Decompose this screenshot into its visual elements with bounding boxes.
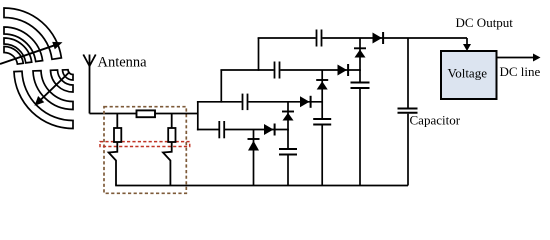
voltage regulator box — [441, 51, 497, 99]
bent stub wire left — [109, 142, 118, 186]
DC line arrow — [497, 54, 541, 62]
matching network inner red dashed box — [100, 142, 190, 147]
resistor R3 (shunt right) — [168, 114, 175, 143]
transmit icon arrow — [0, 42, 63, 64]
capacitor C7 (stage3 shunt at node B3) — [351, 70, 370, 186]
svg-text:DC Output: DC Output — [456, 15, 514, 30]
svg-text:DC line: DC line — [500, 64, 541, 79]
svg-text:Antenna: Antenna — [98, 55, 148, 71]
wire: stage3 line right — [280, 69, 361, 71]
diode D8 (stage4 series) — [373, 32, 384, 44]
wire: input vertical stage1-stage2 — [197, 102, 199, 131]
capacitor C1 (stage1 series) — [219, 121, 224, 138]
wire: stage4 line left — [258, 37, 316, 39]
wire: stage1 line right — [225, 129, 289, 131]
receive antenna radiation icon (arcs with arrow) — [14, 70, 73, 129]
capacitor C2 (stage2 series) — [243, 94, 248, 111]
svg-text:Voltage: Voltage — [448, 66, 488, 81]
wire: R1 to multiplier input — [155, 113, 198, 115]
diode D5 (node B2 up to stage3) — [316, 70, 328, 103]
diode D3 (node B1 up to stage2) — [282, 102, 294, 131]
diode D2 (stage1 series) — [264, 124, 275, 136]
arrow into voltage box — [463, 38, 471, 51]
capacitor C3 (stage3 series) — [275, 62, 280, 79]
capacitor C6 (stage2 shunt at node B2) — [313, 102, 331, 186]
wire: antenna to matching network — [90, 113, 137, 115]
diode D7 (node B3 up to stage4) — [354, 38, 366, 71]
capacitor C5 (stage1 shunt at node B1) — [279, 130, 297, 186]
resistor R2 (shunt left) — [114, 114, 121, 143]
matching network outer dashed box — [104, 107, 186, 194]
wire: stage4 line right to output — [322, 37, 467, 39]
capacitor C4 (stage4 series) — [317, 30, 322, 47]
wire: stage3-stage4 vertical — [258, 38, 260, 71]
capacitor C8 (output smoothing) — [398, 38, 418, 186]
wire: stage2 line right — [248, 101, 323, 103]
diode D4 (stage2 series) — [300, 96, 311, 108]
diode D1 (stage1 shunt, node A1 to ground) — [248, 130, 260, 186]
wire: stage1 line left — [197, 129, 219, 131]
antenna symbol — [83, 55, 95, 114]
bent stub wire right — [163, 142, 172, 186]
wire: stage2 line left — [197, 101, 242, 103]
diode D6 (stage3 series) — [338, 64, 349, 76]
ground rail wire — [115, 185, 408, 187]
resistor R1 (series) — [137, 110, 156, 117]
receive icon arrow — [35, 72, 70, 106]
wire: stage3 line left — [220, 69, 273, 71]
svg-text:Capacitor: Capacitor — [410, 113, 461, 128]
transmit antenna radiation icon (arcs with arrow) — [4, 8, 61, 64]
wire: stage2-stage3 vertical — [220, 70, 222, 103]
